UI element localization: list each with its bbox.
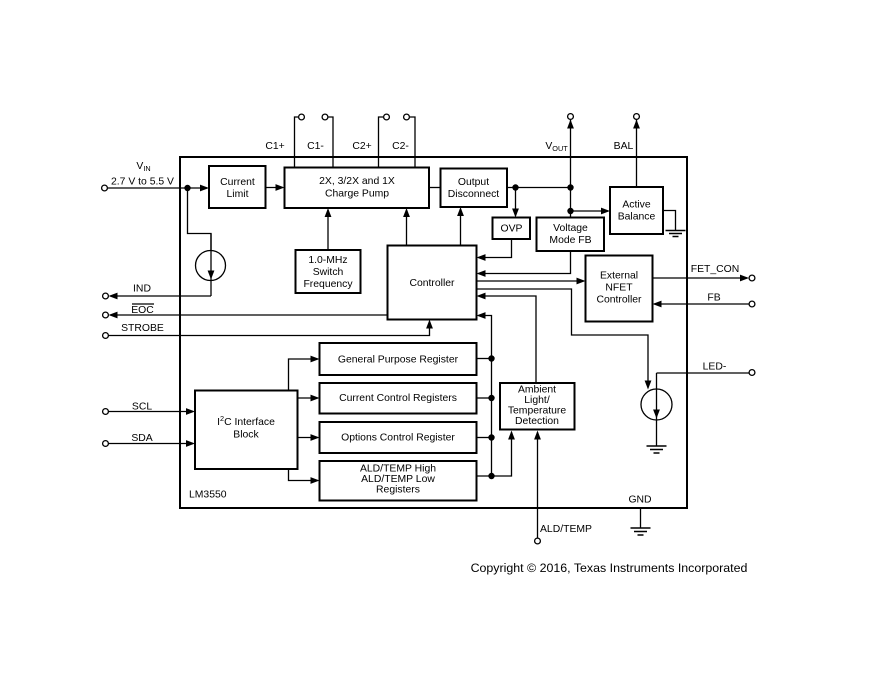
wire node to Active Balance input	[571, 210, 609, 212]
arrow into controller from register bus	[477, 312, 486, 319]
wire register bus to controller	[479, 316, 492, 359]
block I2C Interface Block	[195, 391, 298, 470]
arrow up into Output Disconnect from controller	[457, 207, 464, 216]
svg-text:ALD/TEMP High: ALD/TEMP High	[360, 464, 436, 475]
arrow into General Purpose Register	[311, 356, 320, 363]
wire FB input	[655, 303, 750, 305]
arrow into Current Limit	[200, 185, 209, 192]
arrow into Charge Pump left	[276, 184, 285, 191]
block Charge Pump	[285, 168, 430, 209]
wire through IND current source	[210, 234, 212, 297]
svg-text:FET_CON: FET_CON	[691, 264, 740, 275]
wire FET_CON output	[653, 277, 748, 279]
svg-text:Registers: Registers	[376, 485, 420, 496]
arrow into controller from Voltage Mode FB	[477, 270, 486, 277]
wire VOUT node down to Voltage Mode FB	[570, 188, 572, 218]
svg-text:C2-: C2-	[392, 141, 409, 152]
arrow into IND terminal	[109, 293, 118, 300]
current source IND	[196, 251, 226, 281]
arrow down into LED current source	[645, 381, 652, 390]
wire General Purpose Register output	[477, 358, 492, 360]
arrow inside IND current source	[208, 271, 215, 280]
arrow into I2C from SDA	[186, 440, 195, 447]
svg-text:Current: Current	[220, 177, 255, 188]
svg-text:Temperature: Temperature	[508, 405, 567, 416]
svg-text:Voltage: Voltage	[553, 223, 588, 234]
svg-text:Frequency: Frequency	[303, 279, 353, 290]
svg-text:NFET: NFET	[605, 283, 633, 294]
arrow into External NFET Controller from FB	[653, 301, 662, 308]
arrow into EOC terminal	[109, 312, 118, 319]
wire C1+ pin	[295, 117, 299, 168]
junction VOUT line	[567, 184, 573, 190]
wire LED current source internal	[656, 373, 658, 446]
svg-text:LM3550: LM3550	[189, 490, 227, 501]
wire SDA terminal to I2C block	[109, 443, 194, 445]
terminal C2-	[404, 114, 410, 120]
wire I2C to Options Control Register	[298, 437, 318, 439]
terminal VOUT	[568, 114, 574, 120]
terminal EOC	[103, 312, 109, 318]
terminal IND	[103, 293, 109, 299]
terminal STROBE	[103, 333, 109, 339]
wire LED- current source to terminal	[657, 372, 750, 374]
wire Voltage Mode FB to controller	[479, 251, 571, 274]
wire Ambient detection to controller	[479, 296, 537, 384]
block External NFET Controller	[586, 256, 653, 322]
svg-text:OVP: OVP	[501, 223, 523, 234]
wire SCL terminal to I2C block	[109, 411, 194, 413]
svg-text:2X, 3/2X and 1X: 2X, 3/2X and 1X	[319, 176, 395, 187]
svg-text:Limit: Limit	[227, 189, 249, 200]
svg-text:Switch: Switch	[313, 267, 344, 278]
terminal C1+	[299, 114, 305, 120]
overline for EOC	[132, 303, 154, 305]
terminal C1-	[322, 114, 328, 120]
block Voltage Mode FB	[537, 218, 605, 252]
block Current Control Registers	[320, 383, 477, 414]
svg-text:Ambient: Ambient	[518, 385, 556, 396]
svg-text:EOC: EOC	[131, 305, 154, 316]
wire STROBE terminal to controller bottom	[109, 322, 430, 336]
arrow into ALD/TEMP registers	[311, 477, 320, 484]
block Ambient Light Temperature Detection	[500, 383, 575, 430]
svg-text:Balance: Balance	[618, 212, 656, 223]
wire controller to Output Disconnect	[460, 209, 462, 246]
block General Purpose Register	[320, 343, 477, 375]
wire GND stub	[640, 508, 642, 528]
svg-text:Mode FB: Mode FB	[549, 235, 591, 246]
wire I2C to General Purpose Register	[289, 359, 318, 391]
svg-text:General Purpose Register: General Purpose Register	[338, 355, 459, 366]
arrow up into Charge Pump from 1.0-MHz	[325, 208, 332, 217]
svg-text:1.0-MHz: 1.0-MHz	[308, 255, 347, 266]
wire ALD/TEMP terminal to Ambient detection	[537, 433, 539, 539]
svg-text:Detection: Detection	[515, 416, 559, 427]
terminal SDA	[103, 441, 109, 447]
wire I2C to ALD/TEMP registers	[289, 469, 318, 481]
block 1.0-MHz Switch Frequency	[296, 250, 361, 293]
wire ALD/TEMP registers output to Ambient detection	[477, 433, 512, 477]
arrow inside LED current source	[653, 410, 660, 419]
wire 1.0-MHz to Charge Pump	[327, 210, 329, 250]
wire EOC controller to terminal	[111, 314, 388, 316]
junction OVP tap	[512, 184, 518, 190]
wire Current Limit to Charge Pump	[266, 187, 283, 189]
svg-text:ALD/TEMP: ALD/TEMP	[540, 524, 592, 535]
terminal LED-	[749, 370, 755, 376]
junction Active Balance tap	[567, 208, 573, 214]
wire OVP to controller	[479, 239, 512, 258]
wire controller to External NFET Controller	[477, 280, 584, 282]
junction CCR bus	[488, 395, 494, 401]
arrow into External NFET Controller	[577, 278, 586, 285]
wire Current Control Registers output	[477, 397, 492, 399]
arrow up into controller bottom from STROBE	[426, 320, 433, 329]
svg-text:SCL: SCL	[132, 402, 152, 413]
block ALD/TEMP High Low Registers	[320, 461, 477, 501]
wire VIN junction drop to current source	[188, 188, 212, 251]
terminal ALD/TEMP	[535, 538, 541, 544]
ground at GND pin	[631, 528, 651, 535]
block Current Limit	[209, 166, 266, 208]
svg-text:Copyright © 2016, Texas Instru: Copyright © 2016, Texas Instruments Inco…	[471, 561, 748, 575]
svg-text:Disconnect: Disconnect	[448, 189, 500, 200]
block Options Control Register	[320, 422, 477, 453]
wire VOUT node up to VOUT terminal	[570, 120, 572, 188]
wire controller to Charge Pump	[406, 210, 408, 246]
block Active Balance	[610, 187, 663, 234]
svg-text:Options Control Register: Options Control Register	[341, 433, 455, 444]
wire C1- pin	[329, 117, 334, 168]
svg-text:BAL: BAL	[614, 141, 634, 152]
arrow into Options Control Register	[311, 434, 320, 441]
terminal BAL	[634, 114, 640, 120]
ground at LED current source	[647, 446, 667, 453]
svg-text:Controller: Controller	[596, 295, 642, 306]
svg-text:C1+: C1+	[265, 141, 284, 152]
arrow up into VOUT terminal	[567, 120, 574, 129]
arrow up into BAL terminal	[633, 120, 640, 129]
arrow into I2C from SCL	[186, 408, 195, 415]
terminal FET_CON	[749, 275, 755, 281]
svg-text:Output: Output	[458, 177, 489, 188]
junction ALD registers bus	[488, 473, 494, 479]
wire C2- pin	[410, 117, 415, 168]
svg-text:2.7 V to 5.5 V: 2.7 V to 5.5 V	[111, 176, 174, 187]
wire VIN terminal to Current Limit	[108, 187, 208, 189]
block Controller	[388, 246, 477, 320]
svg-text:FB: FB	[707, 293, 720, 304]
svg-text:SDA: SDA	[131, 433, 152, 444]
current source LED	[641, 389, 672, 420]
svg-text:STROBE: STROBE	[121, 323, 164, 334]
svg-text:Current Control Registers: Current Control Registers	[339, 393, 457, 404]
svg-text:External: External	[600, 271, 638, 282]
svg-text:Active: Active	[622, 200, 651, 211]
arrow into controller from OVP	[477, 254, 486, 261]
wire BAL from Active Balance to terminal	[636, 120, 638, 187]
wire Charge Pump to Output Disconnect	[429, 187, 441, 189]
wire C2+ pin	[379, 117, 384, 168]
arrow into FET_CON terminal	[740, 275, 749, 282]
block Output Disconnect	[441, 169, 508, 208]
terminal FB	[749, 301, 755, 307]
wire Options Control Register output	[477, 437, 492, 439]
terminal C2+	[384, 114, 390, 120]
arrow into Current Control Registers	[311, 395, 320, 402]
wire IND current source to IND terminal	[111, 295, 212, 297]
arrow up into Ambient detection from register bus	[508, 431, 515, 440]
arrow down into OVP	[512, 209, 519, 218]
svg-text:LED-: LED-	[703, 362, 727, 373]
junction GPR bus	[488, 355, 494, 361]
svg-text:C1-: C1-	[307, 141, 324, 152]
svg-text:Block: Block	[233, 430, 259, 441]
block OVP	[493, 218, 531, 240]
svg-text:IND: IND	[133, 284, 151, 295]
arrow into Active Balance	[601, 208, 610, 215]
wire register bus vertical	[491, 359, 493, 477]
svg-text:Light/: Light/	[524, 395, 550, 406]
wire Output Disconnect to VOUT node	[507, 187, 571, 189]
arrow up into Charge Pump from controller	[403, 208, 410, 217]
terminal SCL	[103, 409, 109, 415]
svg-text:ALD/TEMP Low: ALD/TEMP Low	[361, 474, 435, 485]
terminal VIN	[102, 185, 108, 191]
wire controller to LED current source	[477, 289, 649, 388]
wire I2C to Current Control Registers	[298, 397, 318, 399]
svg-text:Controller: Controller	[409, 278, 455, 289]
ground at Active Balance	[666, 231, 686, 237]
wire OVP drop from junction	[515, 188, 517, 216]
junction VIN	[184, 185, 190, 191]
junction OCR bus	[488, 434, 494, 440]
svg-text:Charge Pump: Charge Pump	[325, 188, 389, 199]
wire Active Balance to ground	[663, 211, 676, 231]
outer chip boundary LM3550	[180, 157, 687, 508]
arrow up into Ambient detection from ALD/TEMP pin	[534, 431, 541, 440]
svg-text:C2+: C2+	[352, 141, 371, 152]
svg-text:GND: GND	[628, 495, 651, 506]
arrow into controller from Ambient detection	[477, 293, 486, 300]
